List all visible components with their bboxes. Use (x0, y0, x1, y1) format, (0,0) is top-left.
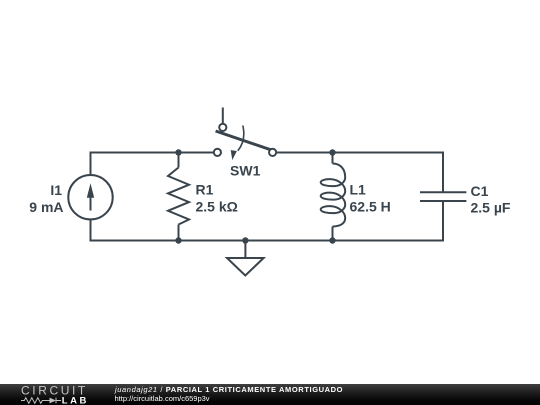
inductor L1 (321, 164, 346, 227)
svg-text:R1: R1 (196, 181, 214, 197)
resistor R1 (168, 168, 189, 225)
ground (227, 258, 264, 276)
node dot L1 bottom (329, 237, 335, 243)
footer line 2 (115, 394, 210, 403)
node dot R1 top (175, 149, 181, 155)
switch SW1 (214, 124, 276, 160)
wire bottom horizontal (91, 201, 444, 241)
wire top-left horizontal (91, 153, 214, 176)
svg-text:SW1: SW1 (230, 163, 261, 179)
svg-text:2.5 µF: 2.5 µF (471, 199, 511, 215)
svg-text:9 mA: 9 mA (29, 199, 63, 215)
node dot R1 bottom (175, 237, 181, 243)
svg-text:2.5 kΩ: 2.5 kΩ (196, 199, 238, 215)
node dot L1 top (329, 149, 335, 155)
wire L1 bottom stub (332, 227, 334, 241)
wire R1 top stub (178, 153, 180, 168)
svg-text:L1: L1 (350, 181, 367, 197)
wire top-right horizontal (276, 153, 443, 193)
svg-text:LAB: LAB (62, 396, 89, 405)
wire L1 top stub (332, 153, 334, 164)
current source I1 (68, 175, 112, 219)
svg-text:C1: C1 (471, 183, 489, 199)
node dot ground (242, 237, 248, 243)
circuitlab logo (0, 384, 100, 405)
svg-text:62.5 H: 62.5 H (350, 199, 391, 215)
capacitor C1 (420, 192, 466, 201)
wire ground stem (244, 241, 246, 259)
svg-text:I1: I1 (50, 182, 62, 198)
wire SW1 top terminal stub (222, 108, 224, 124)
footer line 1 (115, 385, 343, 394)
wire R1 bottom stub (178, 225, 180, 241)
